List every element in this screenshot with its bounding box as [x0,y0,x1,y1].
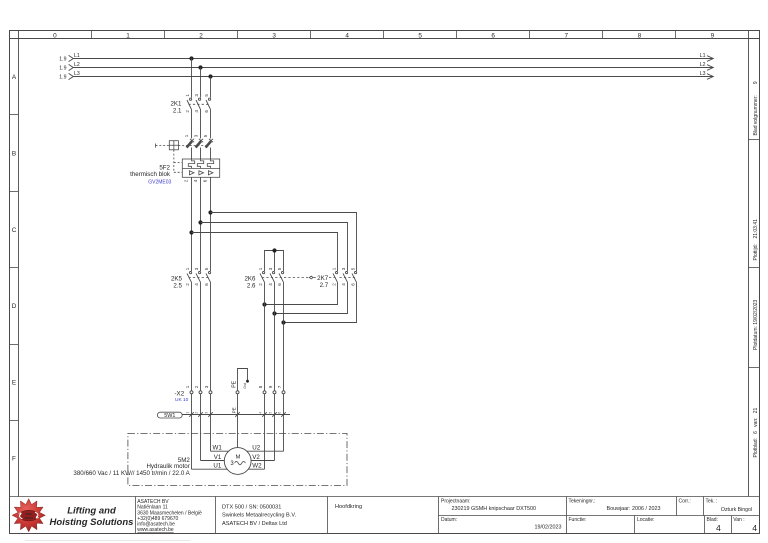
node L1 right arrow and label [700,53,714,61]
svg-text:5: 5 [277,267,282,270]
svg-text:E: E [12,379,16,386]
svg-text:2.5: 2.5 [173,283,182,290]
svg-text:3: 3 [194,134,199,137]
svg-text:Swinkels Metaalrecycling B.V.: Swinkels Metaalrecycling B.V. [222,513,297,519]
wire X2:PE down to motor [237,394,239,448]
svg-text:PE: PE [231,380,237,387]
cell Tekeningnr [569,499,661,512]
wire 2K7 pole2 bottom to star column 2 [275,282,348,313]
terminal X2:2 [194,385,202,394]
svg-text:PE: PE [232,407,237,413]
release triangle pole 2 [199,171,204,175]
svg-text:1: 1 [184,134,189,137]
svg-text:Blad:: Blad: [707,517,718,523]
svg-text:5: 5 [269,412,273,414]
wire 5F2 pole3 to thermal block [210,148,212,160]
contactor 2K6 pole 1 [258,267,265,286]
junction dot branch to 2K7 pole2 [198,220,202,224]
motor M 3~ text [230,455,240,467]
svg-text:L3: L3 [700,71,706,77]
svg-text:6: 6 [277,283,282,286]
svg-text:3: 3 [268,267,273,270]
wire 2K1 pin6 to 5F2 [210,109,212,138]
breaker 5F2 pole 1 contact [184,134,195,182]
junction dot branch to 2K7 pole3 [208,210,212,214]
header row line [10,38,760,40]
svg-text:1: 1 [332,267,337,270]
svg-text:2: 2 [185,283,190,286]
svg-text:W2: W2 [252,462,262,469]
terminal X2:9 [268,385,276,394]
svg-text:2: 2 [258,283,263,286]
svg-text:Datum:: Datum: [441,517,457,523]
left band inner line [18,31,20,497]
motor tilde wave [235,461,246,464]
svg-text:3: 3 [194,267,199,270]
wire U2 into motor [247,450,284,452]
junction dot star point [272,248,276,252]
breaker 5F2 pole 3 contact [203,134,214,182]
svg-text:3: 3 [230,461,234,467]
cable conductor slash 1 [186,412,194,417]
svg-text:7: 7 [277,385,282,388]
junction dot branch to 2K7 pole1 [189,230,193,234]
svg-text:V1: V1 [214,454,222,461]
svg-text:Ozturk Bingol: Ozturk Bingol [721,507,752,513]
header column numbers 0-9 [53,33,715,40]
svg-text:thermisch blok: thermisch blok [130,171,171,178]
thermal element pole 2 [197,159,203,168]
thermal element pole 1 [188,159,194,168]
header column dividers [92,31,676,39]
svg-text:6: 6 [278,412,282,414]
svg-text:Gnd: Gnd [243,383,247,389]
interlock dashed line 2K6 to 2K7 [262,277,337,279]
wire branch to 2K7 pole3 [211,213,357,272]
wire 5F2 pole2 to thermal block [200,148,202,160]
wire 2K5 pin4 down to X2:2 [200,282,202,391]
terminal X2:7 [277,385,285,394]
svg-text:4: 4 [194,283,199,286]
cell Van [733,517,757,533]
wire X2:3 to cable [210,394,212,451]
junction dot L3 [208,74,212,78]
svg-text:1.9: 1.9 [59,57,66,63]
svg-text:6: 6 [351,283,356,286]
svg-text:5: 5 [204,267,209,270]
node L2 right arrow and label [700,62,714,70]
wire 2K6 pin4 down to X2:9 [274,282,276,391]
svg-text:2: 2 [195,412,199,414]
svg-text:5: 5 [418,33,422,40]
breaker 5F2 pole 2 contact [193,134,203,182]
svg-text:Tek. :: Tek. : [706,499,718,505]
svg-text:L3: L3 [74,71,80,77]
svg-text:Functie:: Functie: [569,517,587,523]
contactor 2K7 pole 2 [341,267,348,286]
wire 2K1 pin4 to 5F2 [200,109,202,138]
svg-text:2.6: 2.6 [247,283,256,290]
svg-text:9: 9 [268,385,273,388]
svg-text:2: 2 [199,33,203,40]
cell Tek [706,499,753,513]
wire L1 phase line [74,58,714,60]
ground dot [246,380,249,383]
svg-text:A: A [12,74,17,81]
svg-text:6: 6 [204,283,209,286]
junction dot on column d3 [281,320,285,324]
wire phase3 5F2 to 2K5 pin5 [210,177,212,271]
svg-text:4: 4 [341,283,346,286]
svg-text:2.7: 2.7 [320,282,329,289]
svg-text:D: D [12,303,17,310]
junction dot L2 [198,65,202,69]
right band dividers [749,140,760,368]
svg-text:Lifting and: Lifting and [67,505,116,516]
svg-text:Van :: Van : [733,517,744,523]
svg-text:230219 GSMH knipschaar DXT500: 230219 GSMH knipschaar DXT500 [452,506,537,512]
left band row dividers [10,115,19,421]
thermal block divider [182,167,219,169]
wire 2K1 pin2 to 5F2 [191,109,193,138]
release triangle pole 1 [189,171,194,175]
svg-text:B: B [12,151,16,158]
wire L1 drop to 2K1 pin1 [191,59,193,98]
svg-text:TECH: TECH [24,516,33,520]
svg-text:1: 1 [185,94,190,97]
cable conductor slash 2 [195,412,203,417]
address block [137,499,202,533]
svg-text:3: 3 [194,94,199,97]
terminal X2:8 [258,385,266,394]
contactor 2K1 pole 2 [194,94,201,113]
cable conductor slash PE [232,407,240,417]
svg-text:0: 0 [53,33,57,40]
svg-text:6: 6 [204,110,209,113]
wire X2:9 down [274,394,276,461]
svg-text:4: 4 [194,110,199,113]
node L2 source chevron and labels [59,62,80,72]
svg-text:L1: L1 [74,53,80,59]
wire L2 phase line [74,67,714,69]
svg-text:Blad volgnummer: 9: Blad volgnummer: 9 [753,81,759,135]
wire 5F2 pole1 to thermal block [191,148,193,160]
svg-text:Plottijd: 21:03:41: Plottijd: 21:03:41 [753,219,759,261]
junction dot L1 [189,56,193,60]
project info cell [222,504,297,526]
contactor 2K6 pole 2 [268,267,275,286]
svg-text:5: 5 [204,94,209,97]
cable conductor slash 5 [269,412,277,417]
contactor 2K5 pole 3 [204,267,211,286]
wire U1 into motor [192,468,228,470]
svg-text:2.1: 2.1 [173,107,182,114]
wire L2 drop to 2K1 pin3 [200,68,202,98]
wire V2 into motor [251,460,274,462]
wire W2 into motor [248,468,264,470]
wire L3 drop to 2K1 pin5 [210,77,212,98]
svg-text:Hoofdkring: Hoofdkring [335,504,362,510]
wire L3 phase line [74,76,714,78]
svg-text:4: 4 [259,412,263,414]
node L1 source chevron and labels [59,53,80,63]
svg-text:5: 5 [203,134,208,137]
svg-text:U2: U2 [252,445,260,452]
breaker 5F2 manual operator crossed box [156,141,179,150]
machine boundary dash-dot box [128,433,347,485]
svg-text:L2: L2 [700,62,706,68]
svg-text:Bouwjaar: 2006 / 2023: Bouwjaar: 2006 / 2023 [607,506,661,512]
svg-text:1: 1 [185,385,190,388]
wire branch to 2K7 pole2 [201,223,348,272]
contactor 2K6 pole 3 [277,267,284,286]
svg-text:Projectnaam:: Projectnaam: [441,499,470,505]
terminal X2:PE [231,380,239,394]
contactor 2K1 pole 3 [204,94,211,113]
svg-text:6: 6 [203,179,208,182]
interlock diamond symbol [309,276,313,279]
svg-text:1.9: 1.9 [59,75,66,81]
svg-text:U1: U1 [213,462,221,469]
contactor 2K7 pole 1 [332,267,338,286]
junction dot on column d1 [262,302,266,306]
junction dot on column d2 [272,311,276,315]
breaker 5F2 trip linkage dashes [174,146,206,173]
title block grid [10,497,760,534]
cell Projectnaam [441,499,536,512]
svg-text:7: 7 [565,33,569,40]
svg-text:2: 2 [332,283,337,286]
svg-text:Corr.:: Corr.: [679,499,691,505]
wire phase2 5F2 to 2K5 pin3 [200,177,202,271]
cable 5W1 symbol capsule [157,412,182,418]
svg-text:1: 1 [186,412,190,414]
star point bar shorting 2K6 tops [265,251,284,272]
svg-text:V2: V2 [252,454,260,461]
svg-text:4: 4 [268,283,273,286]
svg-text:5: 5 [351,267,356,270]
thermal element pole 3 [207,159,213,168]
svg-text:3: 3 [272,33,276,40]
svg-text:ASATECH BV / Deltax Ltd: ASATECH BV / Deltax Ltd [222,521,287,527]
svg-text:L1: L1 [700,53,706,59]
svg-text:GV2ME03: GV2ME03 [148,180,171,186]
svg-text:M: M [235,455,240,461]
faint scan artifact line [25,540,190,542]
svg-text:4: 4 [193,179,198,182]
svg-text:2: 2 [185,110,190,113]
svg-text:9: 9 [711,33,715,40]
terminal X2:1 [185,385,193,394]
svg-text:3: 3 [205,412,209,414]
wire 2K6 pin6 down to X2:7 [283,282,285,391]
contactor 2K5 pole 1 [185,267,192,286]
cell Datum [441,517,562,531]
svg-text:C: C [12,227,17,234]
node L3 source chevron and labels [59,71,80,81]
svg-text:19/02/2023: 19/02/2023 [535,525,562,531]
wire 2K7 pole1 bottom to star column 1 [265,282,338,304]
svg-text:4: 4 [752,523,757,533]
cell Blad [707,517,722,533]
svg-text:Hoisting Solutions: Hoisting Solutions [50,517,134,528]
wire X2:1 to cable [191,394,193,469]
svg-text:1: 1 [126,33,130,40]
svg-text:8: 8 [258,385,263,388]
svg-text:Hydraulik motor: Hydraulik motor [146,463,189,470]
thermal block 5F2 rectangle [182,159,219,177]
svg-text:1: 1 [258,267,263,270]
wire W1 into motor [211,450,229,452]
svg-text:4: 4 [345,33,349,40]
svg-text:8: 8 [638,33,642,40]
wire V1 into motor [201,460,225,462]
contactor 2K7 mechanical link dashes [340,277,356,279]
motor 5M2 circle [224,448,251,475]
terminal X2:3 [204,385,212,394]
svg-text:3: 3 [204,385,209,388]
wire phase1 5F2 to 2K5 pin1 [191,177,193,271]
svg-text:6: 6 [491,33,495,40]
wire branch to 2K7 pole1 [192,233,338,272]
cable conductor slash 6 [278,412,286,417]
svg-text:Tekeningnr.:: Tekeningnr.: [569,499,596,505]
svg-text:www.asatech.be: www.asatech.be [137,527,174,533]
logo ASATECH starburst [12,499,45,532]
release triangle pole 3 [208,171,213,175]
svg-text:4: 4 [716,523,721,533]
wire X2:2 to cable [200,394,202,461]
wire 2K7 pole3 bottom to star column 3 [284,282,357,322]
contactor 2K5 mechanical link dashes [189,277,209,279]
cable conductor slash 3 [205,412,213,417]
svg-text:2: 2 [184,179,189,182]
svg-text:1: 1 [185,267,190,270]
PE riser to ground stub [238,369,248,391]
svg-text:F: F [12,456,16,463]
contactor 2K1 mechanical link dashes [189,103,209,105]
svg-text:W1: W1 [213,445,223,452]
logo slogan text [50,505,134,527]
contactor 2K7 pole 3 [351,267,357,286]
svg-text:380/660 Vac / 11 KW// 1450 tr/: 380/660 Vac / 11 KW// 1450 tr/min / 22.0… [73,470,190,477]
svg-text:5W1: 5W1 [164,413,175,419]
wire X2:8 down [264,394,266,469]
svg-text:2: 2 [194,385,199,388]
cable 5W1 line [182,414,290,416]
svg-text:Plotdatum: 19/02/2023: Plotdatum: 19/02/2023 [753,299,759,350]
svg-text:L2: L2 [74,62,80,68]
svg-text:-X2: -X2 [175,390,185,397]
right band inner line [748,31,750,497]
svg-text:Locatie:: Locatie: [637,517,655,523]
contactor 2K5 pole 2 [194,267,201,286]
wire 2K5 pin6 down to X2:3 [210,282,212,391]
node L3 right arrow and label [700,71,714,79]
wire 2K5 pin2 down to X2:1 [191,282,193,391]
svg-text:3: 3 [341,267,346,270]
svg-text:UK 10: UK 10 [175,397,189,403]
svg-text:1.9: 1.9 [59,66,66,72]
wire X2:7 down [283,394,285,451]
cable conductor slash 4 [259,412,267,417]
svg-text:DTX 500 / SN: 0500031: DTX 500 / SN: 0500031 [222,504,281,510]
left band row letters A-F [12,74,17,463]
wire 2K6 pin2 down to X2:8 [264,282,266,391]
contactor 2K1 pole 1 [185,94,192,113]
svg-text:Plotblad: 6 van: 21: Plotblad: 6 van: 21 [753,408,759,458]
